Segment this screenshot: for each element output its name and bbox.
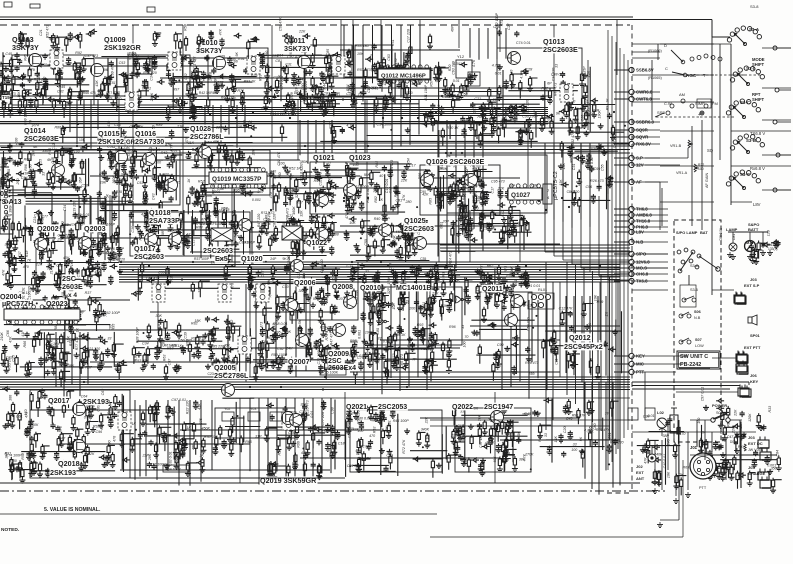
svg-text:Y12: Y12 [457, 54, 465, 59]
svg-text:4.7K: 4.7K [472, 59, 476, 67]
rotary switch S3-B [730, 134, 764, 154]
svg-text:R62: R62 [230, 320, 234, 327]
svg-text:10K: 10K [79, 138, 86, 142]
svg-text:16P: 16P [23, 171, 30, 175]
svg-text:29P: 29P [56, 237, 64, 241]
svg-text:R74: R74 [97, 138, 103, 142]
svg-text:C29: C29 [506, 274, 513, 278]
svg-text:Q2017: Q2017 [48, 396, 70, 405]
svg-text:4.7K: 4.7K [523, 453, 527, 461]
svg-text:R66 473: R66 473 [83, 91, 96, 95]
circuit cluster fill [345, 323, 457, 385]
svg-text:AGC: AGC [686, 73, 697, 78]
svg-text:1K: 1K [379, 198, 384, 202]
transformer T06 [560, 84, 573, 102]
svg-text:C39: C39 [184, 332, 188, 339]
circuit cluster fill [23, 108, 287, 145]
svg-text:1K: 1K [443, 304, 448, 308]
svg-text:4.7K: 4.7K [459, 194, 467, 198]
svg-text:46P: 46P [450, 25, 454, 32]
svg-text:R33: R33 [768, 406, 772, 413]
svg-text:C89: C89 [108, 324, 112, 331]
svg-text:9K: 9K [579, 436, 583, 441]
circuit cluster fill [461, 318, 539, 381]
svg-text:R89 0.01: R89 0.01 [157, 319, 161, 334]
svg-text:C60: C60 [68, 180, 72, 187]
svg-text:360: 360 [7, 169, 11, 175]
svg-text:33: 33 [365, 269, 369, 273]
edge jacks [735, 293, 769, 481]
svg-text:150K: 150K [260, 107, 269, 111]
svg-text:470: 470 [23, 265, 29, 269]
transistor Q2022 [491, 411, 504, 424]
bottom right drop wire [657, 470, 679, 528]
svg-text:10K: 10K [667, 471, 671, 478]
svg-text:C91: C91 [608, 433, 612, 440]
coil L02 [657, 410, 671, 436]
svg-text:180K: 180K [500, 85, 509, 89]
svg-text:Q1016: Q1016 [135, 131, 156, 138]
svg-text:C21: C21 [33, 217, 37, 224]
svg-text:C58 47K: C58 47K [279, 17, 283, 32]
svg-text:C34 1K: C34 1K [70, 261, 74, 274]
svg-text:470: 470 [107, 121, 111, 127]
right panel wires [632, 37, 756, 490]
wire comb 7 [364, 284, 427, 394]
svg-text:220: 220 [492, 98, 499, 102]
svg-text:C84: C84 [776, 450, 780, 457]
svg-text:470: 470 [269, 192, 273, 198]
svg-text:R26 473: R26 473 [590, 179, 604, 183]
svg-text:R59 100K: R59 100K [165, 468, 182, 472]
svg-text:2SC2603E: 2SC2603E [24, 134, 59, 143]
circuit cluster fill [402, 416, 448, 477]
svg-text:C10 220: C10 220 [111, 258, 125, 262]
svg-text:R66: R66 [23, 341, 27, 348]
right edge wires [656, 37, 773, 202]
svg-text:22K: 22K [298, 29, 306, 33]
J03 EXT DC [748, 435, 771, 460]
svg-text:3SK73Y: 3SK73Y [284, 44, 311, 53]
svg-text:2SC2603: 2SC2603 [404, 224, 434, 233]
svg-text:BATT: BATT [748, 227, 759, 232]
circuit cluster fill [245, 316, 340, 380]
svg-text:2SC2603E: 2SC2603E [543, 45, 578, 54]
svg-text:R65: R65 [245, 440, 252, 444]
svg-text:C12: C12 [389, 187, 393, 194]
svg-text:L02: L02 [657, 410, 665, 415]
svg-text:R31: R31 [388, 420, 392, 427]
svg-text:R18: R18 [25, 251, 29, 258]
svg-text:Rx6.8 V: Rx6.8 V [750, 166, 765, 171]
mic element [670, 408, 678, 441]
svg-text:C20: C20 [563, 427, 567, 434]
svg-text:70: 70 [358, 93, 362, 97]
svg-text:R83: R83 [372, 418, 379, 422]
svg-text:Q2011: Q2011 [482, 286, 503, 293]
svg-text:22K: 22K [400, 179, 408, 183]
transistor Q1016 [143, 153, 156, 166]
svg-text:R59 100P: R59 100P [271, 353, 288, 357]
svg-text:4.7K: 4.7K [50, 339, 54, 347]
svg-text:40: 40 [379, 174, 383, 178]
svg-text:450K: 450K [202, 427, 211, 431]
svg-text:T15: T15 [2, 95, 10, 100]
svg-text:C66: C66 [6, 330, 10, 337]
svg-text:33: 33 [107, 336, 111, 340]
svg-text:C70: C70 [190, 75, 197, 79]
svg-text:C15: C15 [39, 159, 43, 166]
svg-text:C49 1K: C49 1K [88, 409, 92, 422]
svg-text:R82: R82 [374, 196, 378, 203]
circuit cluster fill [264, 400, 346, 483]
svg-text:R79: R79 [46, 355, 50, 362]
svg-text:32P: 32P [387, 287, 391, 294]
svg-text:R17 100P: R17 100P [150, 462, 167, 466]
svg-text:R10: R10 [167, 347, 174, 351]
circuit cluster fill [2, 387, 134, 483]
svg-text:R59: R59 [528, 372, 534, 376]
mid vertical pair [430, 262, 630, 430]
svg-text:µPC577H: µPC577H [2, 299, 33, 308]
svg-text:C24: C24 [273, 76, 280, 80]
svg-text:C24: C24 [321, 430, 328, 434]
svg-text:Y02: Y02 [224, 407, 230, 411]
svg-text:22K: 22K [425, 416, 429, 424]
svg-text:C63: C63 [101, 389, 105, 396]
transistor Q2003 [79, 237, 92, 250]
circuit cluster fill [268, 151, 342, 213]
rotary switch S3-A [727, 26, 761, 46]
svg-text:C93 0.01: C93 0.01 [313, 86, 317, 101]
J04 CHARGE [748, 465, 771, 488]
svg-text:R58: R58 [21, 453, 25, 460]
svg-text:C80: C80 [593, 424, 597, 431]
bus line G [250, 397, 630, 399]
svg-text:C16 220: C16 220 [27, 286, 31, 300]
svg-text:KEY: KEY [750, 379, 759, 384]
circuit cluster fill [1, 51, 98, 118]
svg-text:22K: 22K [546, 119, 554, 123]
svg-text:CF01 CF6-455E: CF01 CF6-455E [201, 222, 226, 226]
svg-text:47K: 47K [328, 177, 332, 184]
svg-text:Q1019 MC3357P: Q1019 MC3357P [212, 176, 262, 183]
svg-text:R88: R88 [54, 324, 58, 331]
svg-text:380K: 380K [300, 160, 309, 164]
crystal filter XF02 [127, 51, 157, 74]
svg-text:R87: R87 [146, 257, 152, 261]
svg-text:300K: 300K [439, 167, 448, 171]
svg-text:C44 473: C44 473 [390, 160, 394, 174]
svg-text:190K: 190K [598, 110, 602, 119]
svg-text:30K: 30K [3, 346, 7, 353]
wire comb 3 [84, 196, 119, 261]
boxed spare value R25 [320, 368, 346, 375]
vertical wires [36, 20, 620, 484]
svg-text:C66: C66 [288, 431, 295, 435]
transistor Q2011b [505, 314, 518, 327]
rotary switch S3-b [730, 66, 764, 86]
svg-text:220K: 220K [215, 126, 225, 130]
wire comb 9 [502, 300, 547, 399]
svg-text:R40 100P: R40 100P [374, 217, 391, 221]
svg-text:16P: 16P [533, 110, 537, 117]
svg-text:4K: 4K [33, 145, 38, 149]
svg-text:R22 220: R22 220 [185, 401, 189, 415]
svg-text:C96: C96 [96, 430, 103, 434]
svg-text:33: 33 [544, 433, 548, 437]
svg-text:2SA733P: 2SA733P [149, 216, 180, 225]
svg-text:470: 470 [141, 213, 147, 217]
svg-text:23K: 23K [587, 70, 591, 78]
wire comb 13 [300, 120, 332, 167]
svg-text:J02: J02 [636, 464, 643, 469]
svg-text:22K: 22K [35, 262, 43, 266]
svg-text:R14: R14 [278, 449, 282, 456]
svg-text:170: 170 [24, 410, 28, 416]
transformer T12 [152, 284, 165, 302]
svg-text:TX6.8 V: TX6.8 V [750, 131, 765, 136]
svg-text:470: 470 [369, 434, 375, 438]
svg-text:R53: R53 [372, 427, 376, 434]
svg-text:µPC575-C2: µPC575-C2 [553, 171, 559, 200]
svg-text:36K: 36K [420, 327, 424, 334]
svg-text:R32: R32 [541, 86, 548, 90]
svg-text:PB-2242: PB-2242 [680, 362, 701, 368]
svg-text:0.001: 0.001 [212, 190, 221, 194]
svg-text:R39 473: R39 473 [525, 361, 539, 365]
svg-text:C82 0.01: C82 0.01 [169, 451, 173, 466]
svg-text:460: 460 [192, 444, 196, 450]
svg-text:C80: C80 [376, 328, 380, 335]
svg-text:C21: C21 [474, 97, 481, 101]
svg-text:Q2018: Q2018 [58, 459, 80, 468]
svg-text:LOW: LOW [695, 344, 704, 348]
svg-text:R47 473: R47 473 [329, 332, 333, 346]
svg-text:R64 220: R64 220 [357, 410, 361, 424]
svg-text:SSB6.8V: SSB6.8V [636, 68, 654, 73]
svg-text:R90 473: R90 473 [221, 96, 235, 100]
svg-text:C99: C99 [497, 343, 504, 347]
IC U1012 MC1496P [377, 65, 431, 83]
svg-text:R63: R63 [163, 355, 167, 362]
transformer T07 [218, 284, 231, 302]
svg-text:470: 470 [679, 432, 685, 436]
svg-text:VR1-A: VR1-A [676, 171, 688, 175]
circuit cluster fill [440, 212, 485, 254]
svg-text:L8V: L8V [753, 202, 761, 207]
transformer T03 [168, 52, 181, 70]
svg-text:C82: C82 [507, 232, 514, 236]
circuit cluster fill [0, 324, 127, 387]
filter boxes row4b [628, 408, 655, 420]
svg-text:C31: C31 [285, 63, 292, 67]
svg-text:13K: 13K [404, 275, 411, 279]
svg-text:290K: 290K [185, 88, 195, 92]
svg-text:19K: 19K [16, 142, 23, 146]
svg-text:43K: 43K [95, 80, 99, 87]
svg-text:34K: 34K [477, 195, 481, 202]
svg-text:3P: 3P [121, 172, 126, 176]
svg-text:40K: 40K [224, 344, 231, 348]
svg-text:R25 100K: R25 100K [322, 371, 339, 375]
svg-text:R43: R43 [161, 151, 168, 155]
circuit cluster fill [131, 261, 240, 301]
svg-text:90K: 90K [468, 220, 472, 227]
circuit cluster fill [447, 405, 534, 477]
svg-text:100: 100 [571, 448, 577, 452]
svg-text:100: 100 [74, 150, 80, 154]
svg-text:1K: 1K [132, 422, 137, 426]
bus thick line [0, 123, 548, 125]
circuit cluster fill [496, 64, 594, 144]
circuit cluster fill [129, 207, 256, 263]
svg-text:R64: R64 [210, 91, 216, 95]
svg-text:C59: C59 [77, 271, 81, 278]
svg-text:C63: C63 [387, 54, 391, 61]
right vertical bundle [608, 30, 628, 470]
circuit cluster fill [532, 398, 623, 467]
svg-text:6K: 6K [47, 158, 52, 162]
svg-text:140: 140 [199, 107, 205, 111]
svg-text:Q1021: Q1021 [313, 153, 335, 162]
pot VR1-A [676, 163, 709, 188]
bus staircase down [567, 262, 618, 449]
svg-text:C65 473: C65 473 [400, 354, 404, 368]
svg-text:R96: R96 [449, 325, 456, 329]
svg-text:2SC2786L: 2SC2786L [190, 134, 224, 141]
svg-text:NOTED.: NOTED. [1, 527, 19, 533]
svg-text:9K: 9K [235, 52, 239, 57]
svg-text:C91: C91 [514, 280, 518, 287]
svg-text:360K: 360K [30, 423, 39, 427]
svg-text:C58: C58 [81, 184, 88, 188]
svg-text:17K: 17K [198, 286, 202, 293]
svg-text:Q1023: Q1023 [349, 153, 371, 162]
svg-text:C34: C34 [142, 341, 149, 345]
boxed spare value R59 [163, 465, 189, 472]
svg-text:37P: 37P [273, 173, 277, 180]
wire comb 11 [566, 296, 606, 383]
svg-text:R16: R16 [99, 172, 106, 176]
svg-text:350K: 350K [522, 413, 531, 417]
svg-text:R54: R54 [407, 158, 411, 165]
svg-text:1K: 1K [200, 454, 205, 458]
right edge contacts [773, 46, 791, 192]
svg-text:C21: C21 [527, 303, 534, 307]
bus bundle E [119, 262, 620, 282]
svg-text:110: 110 [231, 427, 235, 433]
svg-text:Q1028: Q1028 [190, 126, 211, 133]
svg-text:C77 220: C77 220 [321, 412, 325, 426]
wire comb 12 [438, 120, 483, 268]
svg-text:38K: 38K [299, 289, 306, 293]
svg-text:C77: C77 [41, 214, 49, 218]
wire comb 16 [470, 28, 506, 60]
svg-text:260K: 260K [150, 92, 154, 102]
svg-text:R52: R52 [445, 95, 452, 99]
circuit cluster fill [212, 398, 262, 456]
svg-text:21P: 21P [176, 125, 184, 129]
svg-text:340K: 340K [421, 428, 430, 432]
svg-text:2SC1947: 2SC1947 [484, 404, 513, 411]
svg-text:13K: 13K [249, 120, 253, 127]
svg-text:C57: C57 [168, 358, 172, 366]
svg-text:R45: R45 [59, 85, 66, 89]
transistor Q1028 [199, 146, 212, 159]
svg-text:R29: R29 [739, 424, 743, 431]
svg-text:470: 470 [113, 436, 117, 442]
svg-text:4.7K: 4.7K [346, 124, 354, 128]
svg-text:C83 47K: C83 47K [364, 352, 379, 356]
svg-text:280: 280 [405, 200, 412, 204]
svg-text:R57: R57 [485, 442, 493, 446]
svg-text:J03: J03 [750, 277, 757, 282]
svg-text:R58: R58 [184, 24, 188, 31]
transistor Q1013 [508, 52, 521, 65]
svg-text:310: 310 [5, 243, 11, 247]
svg-text:R11 100P: R11 100P [424, 84, 428, 100]
svg-text:38K: 38K [68, 364, 75, 368]
svg-text:C54 100P: C54 100P [377, 123, 394, 127]
svg-text:R16 47K: R16 47K [95, 94, 110, 98]
svg-text:C11: C11 [555, 358, 559, 364]
transistor Q2018 [73, 440, 86, 453]
svg-text:R13 473: R13 473 [392, 354, 396, 368]
svg-text:C91: C91 [171, 149, 178, 153]
svg-text:5. VALUE IS NOMINAL.: 5. VALUE IS NOMINAL. [44, 507, 101, 513]
svg-text:21K: 21K [50, 267, 54, 275]
svg-text:C90: C90 [502, 442, 506, 449]
transistor Q2009a [333, 324, 346, 337]
svg-text:R18 100P: R18 100P [458, 227, 475, 231]
panel wires mid [645, 148, 688, 230]
switch labels right [750, 57, 765, 207]
transistor Q2007a [285, 299, 298, 312]
svg-text:R47 220: R47 220 [257, 214, 261, 228]
svg-text:0.001: 0.001 [453, 62, 462, 66]
svg-text:R56: R56 [432, 267, 439, 271]
svg-text:1K: 1K [267, 279, 271, 284]
crystal Y03 boxes [222, 407, 282, 421]
svg-text:C50: C50 [364, 239, 368, 246]
svg-text:SP01: SP01 [750, 333, 761, 338]
svg-text:EXT S.P: EXT S.P [744, 283, 760, 288]
pot VR1-B [670, 140, 714, 153]
svg-text:EXT DC: EXT DC [748, 441, 763, 446]
right meter cluster fill [732, 230, 781, 264]
svg-text:C62 100P: C62 100P [104, 311, 121, 315]
svg-text:J03: J03 [748, 435, 755, 440]
svg-text:1K: 1K [318, 297, 322, 302]
circuit cluster fill [4, 286, 121, 333]
svg-text:C29 47K: C29 47K [357, 457, 372, 461]
transistor Q1011 [298, 56, 311, 69]
switch S3-6 [680, 285, 698, 307]
svg-text:C81: C81 [275, 59, 282, 63]
svg-text:R18: R18 [52, 237, 56, 244]
svg-text:20K: 20K [227, 354, 231, 362]
svg-text:2SC945Px2: 2SC945Px2 [564, 342, 603, 351]
svg-text:S3-B: S3-B [746, 138, 756, 143]
svg-text:R91: R91 [315, 343, 322, 347]
svg-text:4.7K: 4.7K [519, 71, 523, 79]
top parts band fill [18, 17, 317, 59]
svg-text:4.7K: 4.7K [37, 396, 45, 400]
svg-text:470: 470 [115, 97, 121, 101]
svg-text:R114 22K 1/2W: R114 22K 1/2W [270, 112, 297, 116]
right jack cluster fill [637, 414, 689, 496]
